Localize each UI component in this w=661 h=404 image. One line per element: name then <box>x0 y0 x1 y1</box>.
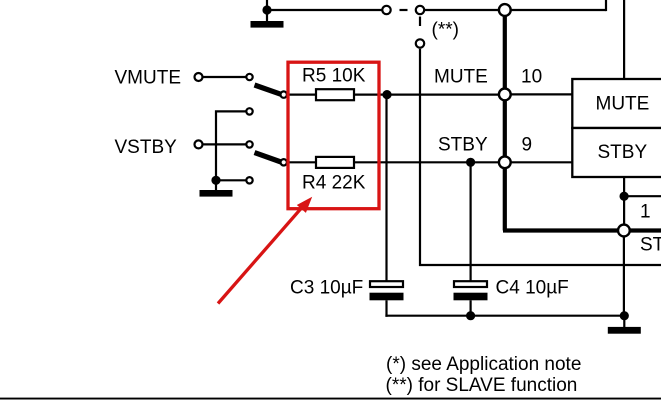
wire dash (**) vertical <box>419 17 421 27</box>
svg-text:STBY-GND: STBY-GND <box>640 235 661 256</box>
node open circle (right of dashed link) <box>416 6 424 14</box>
junction dot MUTE/C3 <box>382 90 391 99</box>
svg-text:VMUTE: VMUTE <box>115 68 182 89</box>
svg-text:(**): (**) <box>432 20 459 41</box>
wire VSTBY to switch pole <box>203 143 246 145</box>
switch SW2 pole circle <box>246 141 252 147</box>
switch SW1 contact circle <box>281 91 287 97</box>
resistor R4 <box>316 157 354 168</box>
node open circle (left of dashed link) <box>382 6 390 14</box>
wire STBY pin to IC box <box>511 161 572 163</box>
resistor R5 <box>316 89 354 100</box>
junction dot switch ground <box>211 176 220 185</box>
switch SW2 lower throw contact circle <box>246 177 252 183</box>
wire IC box bottom to pin 1 <box>623 177 625 231</box>
svg-text:MUTE: MUTE <box>596 94 650 115</box>
bottom rule <box>0 398 661 400</box>
IC box MUTE cell <box>572 79 661 128</box>
pin circle 1 <box>618 225 630 237</box>
svg-text:10: 10 <box>521 67 542 88</box>
svg-text:STBY: STBY <box>598 142 648 163</box>
junction dot below box <box>620 192 629 201</box>
wire C4 top lead <box>470 162 472 281</box>
ground (top left) <box>251 10 284 28</box>
junction top-left <box>262 5 271 14</box>
pin circle top (bus) <box>499 4 511 16</box>
wire upper throw to ground rail <box>216 111 246 180</box>
wire C3 top lead <box>385 95 387 282</box>
switch SW2 lever <box>255 153 282 162</box>
svg-text:C3 10µF: C3 10µF <box>290 278 363 299</box>
wire corner stub up at right <box>605 0 607 11</box>
svg-text:1: 1 <box>640 202 651 223</box>
wire pin 1 down to ground <box>623 237 625 316</box>
junction dot C4/ground rail <box>466 311 475 320</box>
svg-text:(*) see Application note: (*) see Application note <box>386 354 581 375</box>
svg-text:C4 10µF: C4 10µF <box>496 278 569 299</box>
wire VMUTE to switch pole <box>203 76 246 78</box>
svg-text:MUTE: MUTE <box>434 67 488 88</box>
wire R5 to MUTE pin <box>354 93 499 95</box>
pin circle 10 (MUTE) <box>499 89 511 101</box>
wire C3 bottom lead <box>385 300 387 317</box>
terminal VSTBY open circle <box>195 140 203 148</box>
wire contact to R5 <box>287 93 316 95</box>
wire ground rail bottom <box>385 315 624 317</box>
capacitor C3 <box>370 281 404 300</box>
wire vertical into IC box top <box>623 0 625 79</box>
pin circle 9 (STBY) <box>499 156 511 168</box>
junction dot STBY/C4 <box>466 158 475 167</box>
wire MUTE pin to IC box <box>511 93 572 95</box>
switch SW2 contact circle <box>281 159 287 165</box>
terminal VMUTE open circle <box>195 73 203 81</box>
node open circle (** branch) <box>416 39 424 47</box>
svg-text:R4 22K: R4 22K <box>302 173 366 194</box>
wire dash (**) horizontal <box>400 9 408 11</box>
bus thick horizontal right of pin 1 <box>630 228 661 232</box>
wire top horizontal right segment <box>511 9 606 11</box>
wire top horizontal <box>267 9 382 11</box>
bus thick vertical pins 10/9 <box>503 10 507 231</box>
junction dot ground rail right <box>620 311 629 320</box>
wire top horizontal to pin bus <box>425 9 498 11</box>
wire R4 to STBY pin <box>354 161 499 163</box>
wire lower throw to ground junction <box>216 179 246 181</box>
svg-text:STBY: STBY <box>438 134 488 155</box>
red arrow pointing to highlight box <box>218 197 312 304</box>
wire top vertical stub into ground junction <box>266 0 268 10</box>
switch SW2 upper throw contact circle <box>246 108 252 114</box>
wire SLAVE branch vertical+horizontal <box>420 49 661 265</box>
IC box STBY cell <box>572 128 661 177</box>
switch SW1 lever <box>255 85 282 94</box>
capacitor C4 <box>454 281 488 300</box>
wire junction to right edge <box>624 195 661 197</box>
switch SW1 pole circle <box>246 74 252 80</box>
svg-text:VSTBY: VSTBY <box>115 137 178 158</box>
ground (switch) <box>200 180 233 196</box>
bus thick horizontal to pin 1 <box>503 228 618 232</box>
wire contact to R4 <box>287 161 316 163</box>
red highlight box around R5/R4 <box>288 62 379 209</box>
ground (bottom right) <box>608 316 641 334</box>
svg-text:9: 9 <box>522 134 533 155</box>
svg-text:R5 10K: R5 10K <box>302 66 366 87</box>
svg-text:(**) for SLAVE function: (**) for SLAVE function <box>386 375 578 396</box>
wire C4 bottom lead <box>470 300 472 315</box>
